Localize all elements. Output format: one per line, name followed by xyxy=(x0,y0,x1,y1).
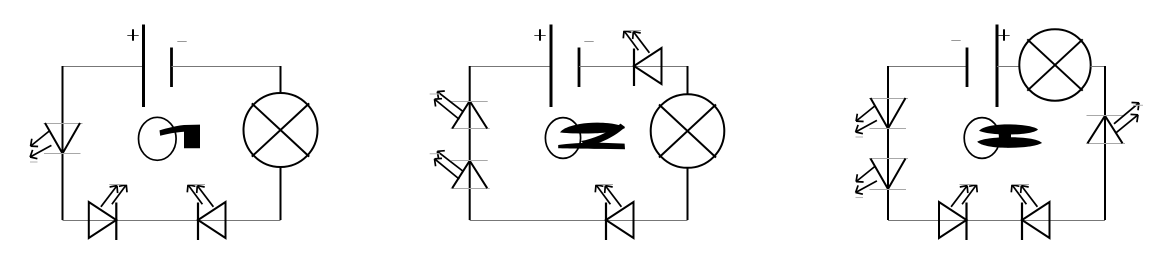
lamp L2 xyxy=(651,94,725,168)
lamp L3 xyxy=(1019,29,1090,100)
wire: left vertical circuit 3 xyxy=(887,66,889,220)
LED D5 (left upper, cathode up, emitting up-left) xyxy=(430,91,490,129)
circuit 1 frame: top wire left segment xyxy=(63,66,144,68)
battery B3 plus label xyxy=(998,29,1009,40)
wire: top right segment circuit 3 xyxy=(1091,66,1106,68)
wire: top mid segment circuit 3 xyxy=(997,66,1020,68)
battery B1 plus label xyxy=(127,29,138,40)
wire: right vertical lower circuit 1 xyxy=(280,167,282,221)
wire: top right segment circuit 1 xyxy=(172,66,281,68)
battery B3 (reversed) xyxy=(967,25,997,108)
LED D6 (left lower, cathode up, emitting up-left) xyxy=(430,151,490,189)
wire: left vertical circuit 2 xyxy=(469,66,471,220)
wire: left vertical circuit 1 xyxy=(62,66,64,220)
LED D1 (left, cathode down, emitting down-left) xyxy=(30,123,83,162)
LED D9 (left upper, cathode down, emitting down-left) xyxy=(856,98,909,137)
wire: bottom wire circuit 1 xyxy=(63,220,281,222)
battery B1 xyxy=(144,25,172,108)
label numeral 1 xyxy=(160,125,201,149)
LED D11 (bottom left, cathode right, emitting up-right) xyxy=(939,185,977,241)
wire: right vertical upper circuit 1 xyxy=(280,66,282,94)
LED D7 (bottom, cathode left, emitting up-left) xyxy=(595,185,633,241)
wire: bottom wire circuit 3 xyxy=(888,220,1105,222)
battery B2 xyxy=(551,25,579,108)
wire: top right segment circuit 2 xyxy=(579,66,688,68)
label circle 3 xyxy=(964,118,1000,159)
wire: bottom wire circuit 2 xyxy=(470,220,688,222)
wire: right vertical circuit 3 xyxy=(1104,66,1106,220)
battery B2 plus label xyxy=(534,29,545,40)
label numeral 2 xyxy=(558,123,625,150)
label circle 1 xyxy=(139,117,177,160)
LED D4 (top, cathode left, emitting up-left) xyxy=(623,31,661,87)
wire: right vertical upper circuit 2 xyxy=(687,66,689,95)
battery B2 minus label xyxy=(584,41,593,43)
LED D12 (bottom right, cathode left, emitting up-left) xyxy=(1011,185,1049,241)
label circle 2 xyxy=(545,118,580,159)
LED D10 (left lower, cathode down, emitting down-left) xyxy=(856,159,909,198)
battery B3 minus label xyxy=(951,40,960,42)
wire: top left segment circuit 2 xyxy=(470,66,551,68)
lamp L1 xyxy=(244,93,318,167)
wire: right vertical lower circuit 2 xyxy=(687,168,689,221)
LED D3 (bottom right, cathode left, emitting up-left) xyxy=(187,185,225,241)
label numeral 3 xyxy=(977,124,1042,147)
battery B1 minus label xyxy=(177,41,186,43)
LED D8 (right, cathode up, emitting up-right) xyxy=(1086,103,1143,144)
wire: top left segment circuit 3 xyxy=(888,66,967,68)
LED D2 (bottom left, cathode right, emitting up-right) xyxy=(89,185,127,241)
